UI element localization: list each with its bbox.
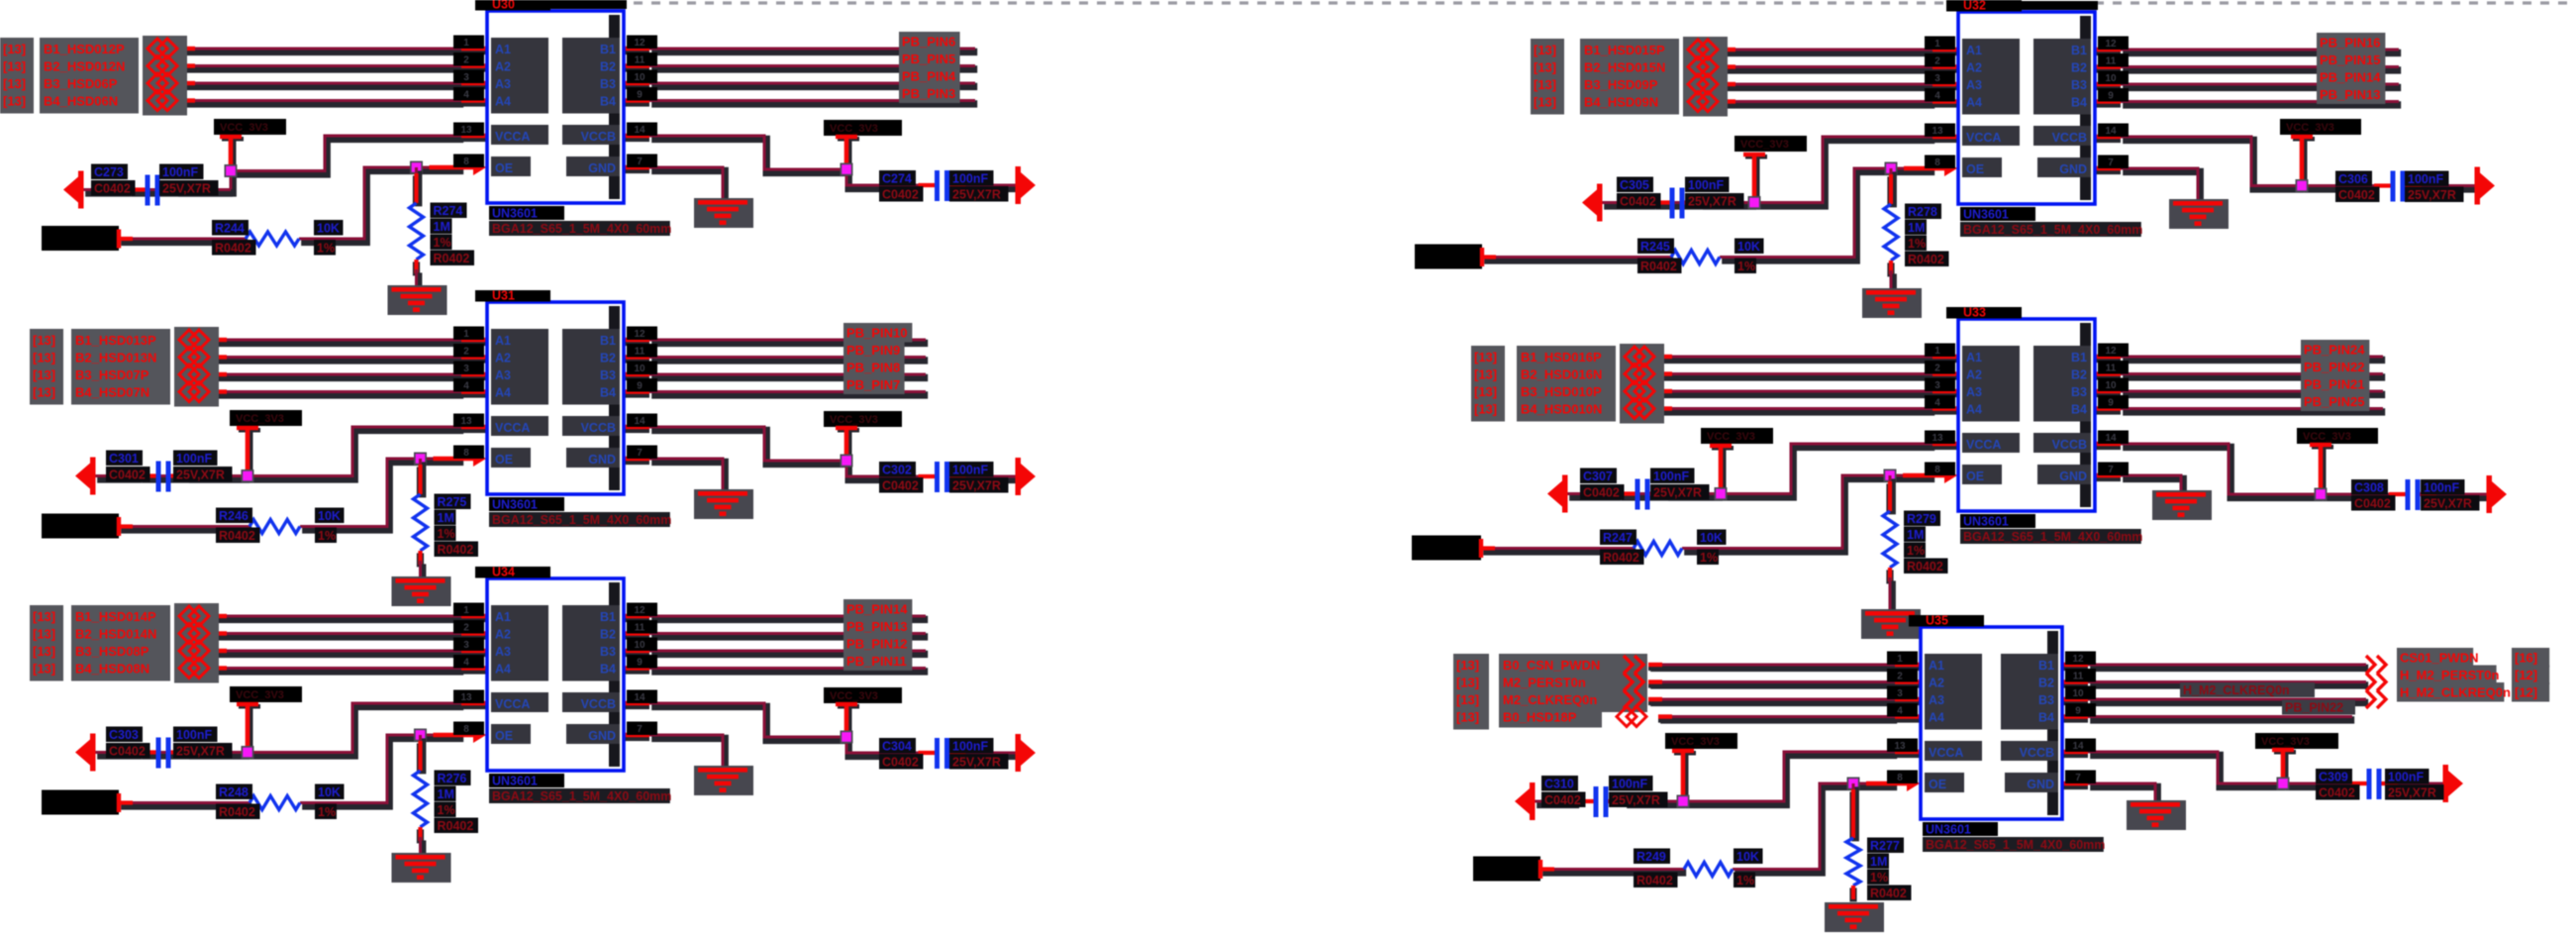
svg-text:A3: A3 <box>495 77 511 91</box>
IC U34 pin GND label <box>566 724 620 744</box>
sheet reference column [13] <box>1471 346 1505 422</box>
svg-text:GND: GND <box>588 453 616 467</box>
wire junction to pulldown resistor R277 <box>1853 783 1855 841</box>
svg-text:C0402: C0402 <box>2319 786 2355 800</box>
svg-text:A2: A2 <box>495 352 511 365</box>
lead R276 bottom <box>417 827 424 843</box>
pin stub U32.A1 <box>1932 50 1957 52</box>
svg-text:PB_PIN22: PB_PIN22 <box>2304 360 2364 374</box>
svg-text:OE: OE <box>495 729 513 743</box>
svg-text:2: 2 <box>463 55 469 66</box>
svg-text:R246: R246 <box>219 509 248 523</box>
U34 pin OE number <box>453 722 484 736</box>
label C302 value <box>949 462 994 477</box>
svg-text:B3_HSD08P: B3_HSD08P <box>75 644 149 659</box>
svg-text:R0402: R0402 <box>1907 560 1943 573</box>
label R278 tolerance <box>1905 236 1927 252</box>
U30 pin 10 number <box>627 70 657 84</box>
svg-text:[13]: [13] <box>1534 60 1556 75</box>
IC U31 right pin name column <box>562 329 620 405</box>
sheet reference column [13] <box>0 38 34 114</box>
label R248 value <box>315 784 345 800</box>
IC U35 pin OE label <box>1925 773 1964 792</box>
wire net B1_HSD014P to U34.A1 <box>213 616 463 619</box>
svg-text:10K: 10K <box>1737 240 1760 254</box>
pin stub U31.GND <box>624 459 649 461</box>
ground at U33.GND <box>2152 490 2212 520</box>
svg-text:25V,X7R: 25V,X7R <box>2408 188 2456 202</box>
IC U32 right pin name column <box>2033 39 2091 115</box>
IC U35 body <box>1921 627 2062 819</box>
IC U31 pin VCCB label <box>562 416 620 436</box>
IC U33 pin VCCA label <box>1962 433 2020 453</box>
pin stub U33.VCCB <box>2095 444 2121 446</box>
svg-text:A1: A1 <box>1929 659 1944 673</box>
svg-text:B4: B4 <box>2071 96 2087 110</box>
wire pulldown to ground <box>1890 577 1892 612</box>
pin stub U30.VCCB <box>624 136 649 138</box>
svg-text:B2: B2 <box>600 60 616 74</box>
net label PB_PIN22 <box>2301 358 2369 377</box>
power label VCC black box <box>1701 428 1773 444</box>
U30 pin 9 number <box>627 87 657 101</box>
label C308 value <box>2421 479 2465 495</box>
svg-text:1M: 1M <box>1908 221 1925 235</box>
diamond connector B3_HSD08P <box>179 641 209 661</box>
ground at U32.GND <box>2169 199 2229 229</box>
U30 pin VCCA number <box>453 123 484 137</box>
net connector diamonds column <box>174 327 219 407</box>
svg-text:10K: 10K <box>317 222 340 236</box>
wire net B3_HSD010P to U33.A3 <box>1658 391 1934 394</box>
svg-text:A3: A3 <box>1929 693 1944 707</box>
net label PB_PIN21 <box>2301 374 2369 394</box>
label R275 refdes <box>435 494 471 510</box>
svg-text:7: 7 <box>637 156 643 167</box>
pin stub U33.B4 <box>2095 409 2121 411</box>
U32 pin 3 number <box>1925 71 1955 85</box>
junction OE node U32 <box>1885 162 1898 175</box>
svg-text:B4: B4 <box>600 663 616 677</box>
arrow into U33.OE <box>1903 468 1957 483</box>
power label VCC_3V3 black box B-side <box>824 687 902 703</box>
power symbol VCC U31 A-side <box>237 426 260 476</box>
svg-text:UN3601: UN3601 <box>1963 515 2009 529</box>
svg-text:A1: A1 <box>495 43 511 56</box>
wire net B0_HSD18P to U35.A4 <box>1658 717 1897 720</box>
pin stub U32.GND <box>2095 168 2121 170</box>
wire pulldown to ground <box>417 269 419 288</box>
svg-text:M2_CLKREQ0n: M2_CLKREQ0n <box>1503 692 1597 707</box>
svg-text:[13]: [13] <box>1474 367 1497 382</box>
power label VCC_3V3 black box B-side <box>2297 428 2378 444</box>
svg-text:PB_PIN22: PB_PIN22 <box>2285 701 2343 715</box>
wire power arrow to capacitor <box>1567 494 1621 497</box>
junction OE node U35 <box>1847 778 1860 790</box>
label C304 footprint <box>879 754 924 770</box>
label R248 tolerance <box>315 804 337 820</box>
wire net B1_HSD016P to U33.A1 <box>1658 357 1934 360</box>
IC U35 pin GND label <box>2005 773 2058 792</box>
wire U35.B1 to net CS01_PWDN <box>2088 665 2368 668</box>
U31 pin VCCA number <box>453 414 484 428</box>
U30 pin 4 number <box>453 87 484 101</box>
svg-text:R249: R249 <box>1636 850 1666 864</box>
svg-text:U35: U35 <box>1926 614 1948 628</box>
svg-text:B2_HSD015N: B2_HSD015N <box>1584 60 1665 75</box>
U33 pin GND number <box>2098 463 2129 476</box>
svg-text:A2: A2 <box>495 60 511 74</box>
junction VCCA node U31 <box>242 469 254 482</box>
diamond connector B2_HSD012N <box>148 56 177 76</box>
label C304 refdes <box>879 738 916 754</box>
svg-text:100nF: 100nF <box>2424 481 2459 495</box>
pin stub U35.GND <box>2062 783 2088 785</box>
label R249 refdes <box>1634 849 1670 865</box>
sheet ref [12] <box>2512 666 2549 685</box>
wire U32.B3 to net PB_PIN14 <box>2121 84 2401 87</box>
ground at U30.GND <box>694 198 753 228</box>
svg-text:C303: C303 <box>109 728 139 742</box>
chevron connector M2_PERST0n <box>1624 674 1643 691</box>
svg-text:R274: R274 <box>434 204 463 218</box>
diamond connector B3_HSD06P <box>148 73 177 93</box>
power output arrow <box>1016 734 1037 772</box>
label R279 footprint <box>1904 559 1948 574</box>
svg-text:H_M2_CLKREQ0n: H_M2_CLKREQ0n <box>2183 683 2290 697</box>
svg-text:A1: A1 <box>495 334 511 348</box>
sheet reference column [13] <box>30 605 63 681</box>
svg-text:8: 8 <box>1934 157 1940 168</box>
capacitor C306 <box>2374 171 2422 202</box>
svg-text:UN3601: UN3601 <box>1926 823 1971 837</box>
svg-text:7: 7 <box>2108 465 2114 475</box>
IC U30 pin OE label <box>491 156 531 176</box>
label C306 footprint <box>2335 187 2380 203</box>
lead R277 bottom <box>1849 886 1856 901</box>
label R277 refdes <box>1867 838 1904 854</box>
net stub B1_HSD016P <box>1658 357 1672 359</box>
svg-text:R248: R248 <box>219 785 248 799</box>
net label PB_PIN8 <box>843 358 905 377</box>
label C302 rating <box>949 477 1009 493</box>
wire net B2_HSD015N to U32.A2 <box>1722 67 1934 70</box>
lead R274 top <box>413 173 420 205</box>
svg-text:B2_HSD013N: B2_HSD013N <box>75 351 156 365</box>
svg-text:4: 4 <box>463 658 469 669</box>
svg-text:B1_HSD016P: B1_HSD016P <box>1521 350 1602 365</box>
capacitor C301 <box>140 462 187 492</box>
label R248 footprint <box>216 804 260 820</box>
pin stub U31.B1 <box>624 340 649 342</box>
svg-text:25V,X7R: 25V,X7R <box>176 745 225 759</box>
wire junction to capacitor <box>140 476 249 479</box>
label C306 rating <box>2405 187 2464 203</box>
svg-text:B2: B2 <box>2071 61 2087 75</box>
net label PB_PIN24 <box>2301 340 2369 360</box>
U30 pin OE number <box>453 155 484 168</box>
svg-text:[13]: [13] <box>1456 658 1479 673</box>
svg-text:B4: B4 <box>2038 711 2054 725</box>
wire U34.B1 to net PB_PIN14 <box>649 616 928 619</box>
junction VCCA node U33 <box>1715 487 1728 500</box>
IC U32 refdes <box>1946 0 2022 13</box>
svg-text:PB_PIN5: PB_PIN5 <box>902 52 955 66</box>
label R245 refdes <box>1637 239 1674 255</box>
U32 pin 2 number <box>1925 53 1955 67</box>
U35 pin GND number <box>2065 771 2096 784</box>
capacitor C273 <box>129 175 176 206</box>
arrow into U32.OE <box>1904 160 1957 176</box>
svg-text:B1_HSD015P: B1_HSD015P <box>1584 43 1665 57</box>
IC U35 right pin name column <box>2001 654 2058 730</box>
svg-text:10: 10 <box>634 72 645 83</box>
wire capacitor to junction <box>187 753 249 756</box>
IC U32 left pin name column <box>1962 39 2020 115</box>
label C309 value <box>2385 769 2429 784</box>
pin stub U31.A4 <box>461 392 486 394</box>
wire net B1_HSD013P to U31.A1 <box>213 340 463 343</box>
svg-text:R0402: R0402 <box>1908 253 1944 266</box>
net label PB_PIN5 <box>899 50 960 69</box>
svg-text:B4_HSD06N: B4_HSD06N <box>44 94 118 109</box>
svg-text:B2_HSD014N: B2_HSD014N <box>75 627 156 642</box>
svg-text:7: 7 <box>637 724 643 735</box>
label R244 value <box>314 220 344 236</box>
svg-text:13: 13 <box>1932 126 1943 137</box>
power input arrow <box>1515 782 1536 820</box>
capacitor C274 <box>919 170 966 201</box>
svg-text:C0402: C0402 <box>882 188 919 202</box>
power symbol VCC U33 A-side <box>1710 444 1734 494</box>
svg-text:A3: A3 <box>1966 78 1982 92</box>
svg-text:7: 7 <box>2108 157 2114 168</box>
power label VCC_3V3 black box B-side <box>824 411 902 427</box>
svg-text:R244: R244 <box>215 222 245 236</box>
net label PB_PIN14 <box>843 599 912 619</box>
pin stub U32.VCCA <box>1932 137 1957 139</box>
label R278 footprint <box>1905 252 1949 267</box>
label C274 value <box>949 170 994 186</box>
resistor R247 10K <box>1634 542 1682 556</box>
svg-text:11: 11 <box>2073 672 2084 682</box>
svg-text:100nF: 100nF <box>162 165 198 179</box>
U30 pin VCCB number <box>627 123 657 137</box>
wire U34.B4 to net PB_PIN11 <box>649 669 928 672</box>
wire power arrow to capacitor <box>83 190 131 193</box>
net stub B4_HSD08N <box>213 669 227 671</box>
IC U30 top shadow strip <box>550 0 627 9</box>
U35 pin 3 number <box>1887 686 1918 700</box>
svg-text:VCCA: VCCA <box>495 421 530 435</box>
pin stub U35.VCCA <box>1895 752 1920 754</box>
svg-text:1: 1 <box>1934 39 1940 50</box>
label C308 footprint <box>2351 495 2396 511</box>
pin stub U32.A3 <box>1932 84 1957 86</box>
lead R278 bottom <box>1887 261 1894 276</box>
wire junction to pulldown resistor <box>417 167 419 206</box>
junction OE node U33 <box>1884 469 1897 482</box>
svg-text:C306: C306 <box>2338 172 2368 186</box>
pin stub U34.A2 <box>461 634 486 636</box>
wire OE port to series resistor <box>119 239 248 242</box>
IC U30 left pin name column <box>491 38 548 114</box>
IC U34 pin VCCB label <box>562 692 620 712</box>
ground below R277 <box>1825 902 1884 932</box>
svg-text:PB_PIN16: PB_PIN16 <box>2320 36 2380 51</box>
net stub B4_HSD09N <box>1722 102 1735 104</box>
ground at U34.GND <box>694 766 753 795</box>
net stub B1_HSD012P <box>181 49 195 51</box>
OE port pin R3 <box>1538 860 1554 879</box>
svg-text:[13]: [13] <box>3 76 26 91</box>
U31 pin 2 number <box>453 344 484 358</box>
svg-text:3: 3 <box>1897 688 1903 699</box>
svg-text:B4: B4 <box>2071 403 2087 417</box>
label R279 refdes <box>1904 511 1940 527</box>
net stub B4_HSD07N <box>213 392 227 394</box>
svg-text:OE: OE <box>1966 469 1984 483</box>
wire junction to capacitor <box>140 753 249 756</box>
svg-text:13: 13 <box>460 125 472 136</box>
resistor R277 1M <box>1846 838 1860 886</box>
wire junction to capacitor <box>1653 203 1756 206</box>
power symbol VCC U35 A-side <box>1672 749 1696 801</box>
svg-text:1%: 1% <box>438 527 455 541</box>
svg-text:[13]: [13] <box>3 59 26 74</box>
svg-text:13: 13 <box>460 416 472 427</box>
svg-text:CS01_PWDN: CS01_PWDN <box>2400 651 2478 666</box>
net stub M2_CLKREQ0n <box>1648 699 1662 701</box>
U34 pin 10 number <box>627 638 657 652</box>
svg-text:BGA12_S65_1_5M_4X0_60mm: BGA12_S65_1_5M_4X0_60mm <box>492 789 671 803</box>
svg-text:GND: GND <box>2059 162 2087 176</box>
wire OE port to series resistor <box>1540 870 1686 873</box>
sheet ref [16] <box>2512 648 2549 668</box>
net label PB_PIN10 <box>843 323 912 343</box>
label R275 value <box>435 510 456 526</box>
power label VCC_3V3 black box B-side <box>2280 119 2361 135</box>
svg-text:25V,X7R: 25V,X7R <box>1612 793 1660 807</box>
wire series resistor to U32.OE <box>1720 168 1934 261</box>
label C274 rating <box>949 186 1009 202</box>
svg-text:C0402: C0402 <box>1620 195 1656 209</box>
IC U33 refdes <box>1946 306 2022 320</box>
svg-text:B2: B2 <box>600 628 616 642</box>
U31 pin 12 number <box>627 327 657 341</box>
wire net B2_HSD013N to U31.A2 <box>213 358 463 361</box>
wire U35.VCCB to junction <box>2088 752 2285 786</box>
svg-text:OE: OE <box>1929 778 1946 791</box>
svg-text:8: 8 <box>463 156 469 167</box>
IC U32 value UN3601 <box>1960 207 2035 222</box>
label R275 footprint <box>435 542 479 558</box>
OE net port label box <box>1412 536 1481 561</box>
capacitor C303 <box>140 738 187 769</box>
label C306 refdes <box>2335 171 2372 187</box>
svg-text:10K: 10K <box>318 509 341 523</box>
label R277 tolerance <box>1867 870 1889 886</box>
svg-text:100nF: 100nF <box>952 172 988 186</box>
svg-text:B1: B1 <box>2038 659 2054 673</box>
wire U33.GND to ground <box>2121 475 2183 493</box>
power symbol VCC U34 A-side <box>237 702 260 753</box>
svg-text:B2: B2 <box>600 352 616 365</box>
svg-text:VCC_3V3: VCC_3V3 <box>1740 139 1789 151</box>
U33 pin VCCA number <box>1925 431 1955 445</box>
capacitor C308 <box>2389 479 2436 510</box>
svg-text:B4_HSD010N: B4_HSD010N <box>1521 402 1602 417</box>
U32 pin 12 number <box>2098 37 2129 51</box>
svg-text:100nF: 100nF <box>176 728 212 742</box>
arrow into U35.OE <box>1866 776 1920 791</box>
svg-text:BGA12_S65_1_5M_4X0_60mm: BGA12_S65_1_5M_4X0_60mm <box>492 513 671 527</box>
svg-text:25V,X7R: 25V,X7R <box>952 188 1001 202</box>
net stub B2_HSD016N <box>1658 374 1672 376</box>
label R244 tolerance <box>314 240 336 256</box>
IC U30 footprint BGA12_S65_1_5M_4X0_60mm <box>489 221 671 236</box>
diamond connector B4_HSD08N <box>179 659 209 678</box>
svg-text:B3: B3 <box>2071 78 2087 92</box>
svg-text:[13]: [13] <box>33 627 55 642</box>
pin stub U33.A4 <box>1932 409 1957 411</box>
OE port pin <box>117 793 133 812</box>
svg-text:C273: C273 <box>94 165 124 179</box>
diamond connector B3_HSD07P <box>179 365 209 384</box>
IC U31 left pin name column <box>491 329 548 405</box>
svg-text:4: 4 <box>1934 398 1940 409</box>
svg-text:4: 4 <box>463 381 469 392</box>
U35 pin 12 number <box>2065 652 2096 666</box>
power input arrow <box>1547 475 1568 513</box>
pin stub U35.B1 <box>2062 665 2088 667</box>
U33 pin 10 number <box>2098 378 2129 392</box>
power input arrow <box>75 458 96 495</box>
svg-text:VCCB: VCCB <box>2052 131 2087 145</box>
diamond connector B2_HSD015N <box>1688 57 1718 77</box>
svg-text:R245: R245 <box>1640 240 1670 254</box>
svg-text:10: 10 <box>2105 380 2117 391</box>
diamond connector B1_HSD015P <box>1688 40 1718 59</box>
wire net B3_HSD08P to U34.A3 <box>213 651 463 654</box>
wire U30.B2 to net PB_PIN5 <box>649 66 977 69</box>
svg-text:A1: A1 <box>1966 351 1982 365</box>
label R278 value <box>1905 220 1927 236</box>
IC U30 right pin name column <box>562 38 620 114</box>
IC U34 pin OE label <box>491 724 531 744</box>
svg-text:B1: B1 <box>2071 44 2087 57</box>
diamond connector B4_HSD010N <box>1625 399 1654 419</box>
IC U30 refdes <box>475 0 550 12</box>
pin stub U30.B1 <box>624 49 649 51</box>
net label PB_PIN4 <box>899 66 960 86</box>
wire series resistor to U31.OE <box>300 459 463 530</box>
wire pulldown to ground <box>1891 270 1893 291</box>
label C301 value <box>173 451 218 467</box>
net stub B2_HSD015N <box>1722 67 1735 69</box>
label R249 tolerance <box>1734 873 1755 888</box>
net label PB_PIN13 <box>2317 85 2385 105</box>
wire U30.B1 to net PB_PIN6 <box>649 49 977 52</box>
svg-text:VCCA: VCCA <box>1966 438 2001 452</box>
diamond connector B1_HSD012P <box>148 39 177 58</box>
svg-text:R0402: R0402 <box>1640 260 1677 273</box>
svg-text:1: 1 <box>1897 654 1903 665</box>
svg-text:R0402: R0402 <box>1636 874 1673 887</box>
IC U30 pin VCCB label <box>562 125 620 145</box>
wire series resistor to U30.OE <box>299 167 463 242</box>
pin stub U35.A3 <box>1895 699 1920 701</box>
